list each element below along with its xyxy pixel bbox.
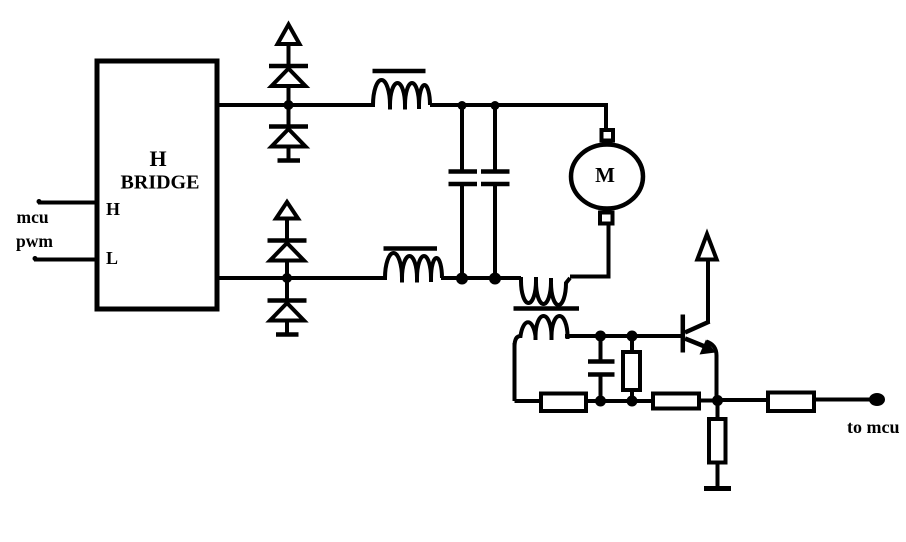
inductor L1 — [373, 69, 426, 74]
junction dot C1 bottom — [456, 273, 468, 285]
wire mcu H input — [38, 201, 95, 205]
terminal dot to mcu — [869, 393, 885, 406]
transformer T1 primary winding — [521, 277, 570, 305]
diode D2 — [287, 107, 291, 125]
svg-text:H: H — [149, 146, 166, 171]
junction dot C1 top — [458, 101, 467, 110]
junction dot R2 top — [627, 331, 638, 342]
svg-text:H: H — [106, 199, 120, 219]
junction dot C2 top — [491, 101, 500, 110]
arrow terminal top of D1 chain — [278, 25, 300, 45]
svg-text:pwm: pwm — [16, 231, 53, 251]
wire R1 to C3 node — [588, 399, 651, 403]
transistor Q1 base bar — [681, 315, 686, 353]
resistor R4 — [716, 401, 720, 419]
junction dot R2 bottom — [627, 396, 638, 407]
motor M1 — [602, 130, 614, 141]
transistor Q1 collector — [685, 322, 710, 333]
resistor R5 — [768, 393, 814, 412]
svg-text:to mcu: to mcu — [847, 417, 900, 437]
wire bottom loop left — [515, 399, 542, 403]
resistor R2 — [630, 336, 634, 352]
inductor L2 — [384, 246, 438, 251]
arrow terminal collector supply — [697, 234, 716, 260]
node A junction dot — [284, 100, 294, 110]
capacitor C1 — [460, 105, 464, 170]
terminal bar below D2 — [278, 158, 301, 163]
svg-text:M: M — [595, 163, 615, 187]
diode D4 — [285, 280, 289, 299]
transformer T1 core bar — [514, 306, 580, 311]
resistor R1 — [541, 394, 586, 412]
junction dot emitter node — [712, 395, 723, 406]
svg-text:L: L — [106, 248, 118, 268]
wire emitter node to R5 — [718, 398, 766, 402]
wire motor bottom to transformer primary — [570, 225, 609, 277]
wire mcu L input — [34, 258, 95, 262]
transformer T1 secondary winding — [515, 316, 568, 347]
ground — [704, 486, 731, 491]
H bridge block U1 — [97, 61, 217, 309]
svg-text:BRIDGE: BRIDGE — [121, 172, 200, 194]
junction dot C3 top — [595, 331, 606, 342]
wire L2 to transformer primary — [441, 276, 521, 280]
junction dot C3 bottom — [595, 396, 606, 407]
arrow terminal top of D3 chain — [276, 202, 298, 219]
wire H-bridge top output to L1 — [217, 103, 372, 107]
svg-text:mcu: mcu — [17, 207, 49, 227]
transistor Q1 emitter with arrowhead — [685, 339, 706, 348]
diode D3 — [268, 238, 307, 243]
wire L1 to motor top — [430, 105, 606, 131]
terminal bar below D4 — [276, 332, 299, 337]
wire H-bridge bottom output to L2 — [217, 276, 384, 280]
diode D1 — [269, 64, 308, 69]
wire R5 to mcu terminal — [816, 398, 870, 402]
capacitor C2 — [493, 105, 497, 170]
wire secondary left lead down — [513, 343, 517, 401]
junction dot C2 bottom — [489, 273, 501, 285]
wire secondary to Q1 base — [565, 334, 681, 338]
node B junction dot — [282, 273, 292, 283]
resistor R3 — [653, 394, 699, 409]
capacitor C3 — [599, 338, 603, 360]
